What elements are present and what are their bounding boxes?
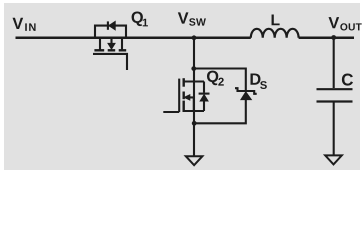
node VOUT label xyxy=(329,17,340,28)
capacitor C top plate xyxy=(317,88,353,90)
transistor Q1 channel tick middle xyxy=(108,49,116,51)
wire Ds bottom return branch xyxy=(194,99,246,123)
diode Q1 body diode triangle xyxy=(109,21,115,29)
diode Q2 body diode triangle xyxy=(200,95,208,101)
transistor Q2 source stub wire xyxy=(184,110,204,112)
transistor Q2 channel tick top (drain) xyxy=(182,78,184,87)
inductor L coil xyxy=(251,29,299,38)
transistor Q2 gate bar xyxy=(178,79,180,112)
transistor Q2 gate lead wire xyxy=(163,111,179,113)
wire capacitor bottom to ground xyxy=(333,103,335,156)
wire rail inductor to VOUT end xyxy=(299,37,354,40)
capacitor C bottom plate xyxy=(317,100,353,102)
ground symbol under C xyxy=(325,155,342,164)
capacitor C reference label xyxy=(342,74,353,86)
transistor Q1 body arrow xyxy=(110,38,112,43)
wire VSW vertical from rail to ground xyxy=(193,38,195,156)
diode Q2 body diode bar (cathode) xyxy=(199,93,210,95)
inductor L reference label xyxy=(272,15,280,26)
wire main input rail VIN to inductor xyxy=(16,37,251,40)
transistor Q2 body arrow xyxy=(190,97,195,111)
transistor Q1 reference label xyxy=(132,12,143,27)
diode Ds schottky cathode bar with hooks xyxy=(235,88,257,94)
diode Ds reference label xyxy=(250,73,260,84)
node junction dot VSW to Ds branch xyxy=(191,66,196,71)
ground symbol under Q2 xyxy=(186,156,203,165)
transistor Q2 channel tick bottom (source) xyxy=(182,101,184,112)
transistor Q1 left leg (drain) xyxy=(99,38,101,50)
node VOUT junction dot xyxy=(331,35,336,40)
node VSW label xyxy=(178,12,189,23)
node junction dot Ds bottom return xyxy=(192,121,197,126)
diode Ds triangle xyxy=(241,92,251,100)
transistor Q1 gate line and lead xyxy=(93,54,127,70)
background panel xyxy=(4,3,360,170)
transistor Q2 drain stub wire xyxy=(184,80,204,82)
diode Q2 body diode branch wire bottom xyxy=(203,101,205,112)
transistor Q1 channel tick left xyxy=(94,49,104,51)
transistor Q1 channel tick right xyxy=(119,49,127,51)
diode Q2 body diode branch wire top xyxy=(203,82,205,93)
node VIN label xyxy=(13,18,24,29)
wire VSW to Ds top branch xyxy=(194,69,246,91)
diode Q1 body diode bar (cathode) xyxy=(107,21,109,29)
transistor Q2 reference label xyxy=(207,71,218,86)
wire VOUT vertical to capacitor top xyxy=(333,38,335,89)
node VSW junction dot on rail xyxy=(192,35,197,40)
transistor Q1 body-diode loop wire xyxy=(95,26,126,38)
transistor Q1 right leg (source) xyxy=(121,38,123,50)
transistor Q2 channel tick middle (body) xyxy=(182,92,184,100)
